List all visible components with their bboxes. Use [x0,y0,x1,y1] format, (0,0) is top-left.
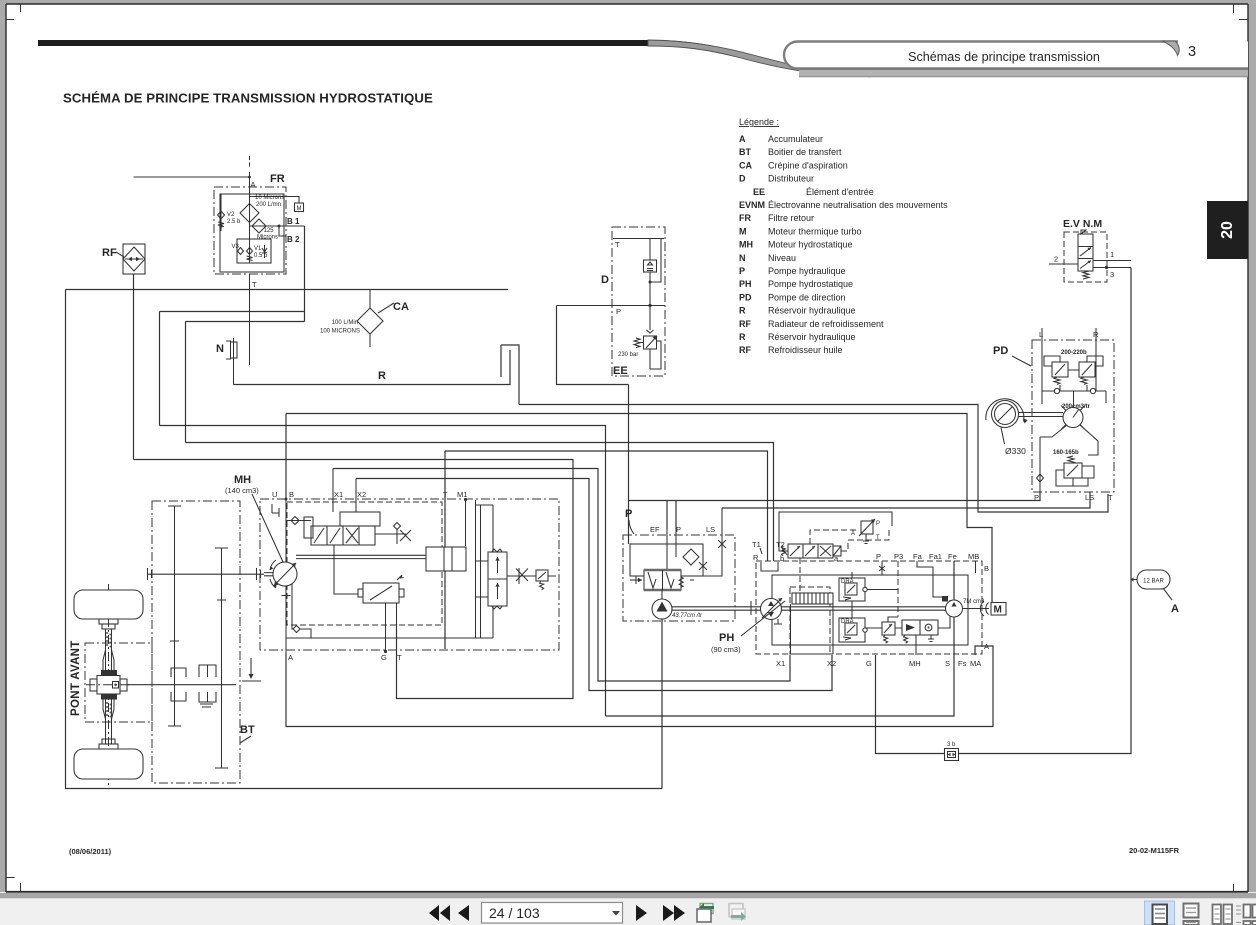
svg-text:20-02-M115FR: 20-02-M115FR [1129,846,1180,855]
svg-text:T: T [397,653,402,662]
svg-text:Filtre retour: Filtre retour [768,213,814,223]
svg-text:Pompe hydraulique: Pompe hydraulique [768,266,846,276]
svg-text:T: T [615,240,620,249]
svg-text:PD: PD [993,345,1008,357]
svg-text:X1: X1 [776,659,785,668]
svg-text:Fs: Fs [958,659,967,668]
svg-text:V1: V1 [254,246,262,252]
svg-text:L: L [1039,330,1043,339]
svg-text:EF: EF [650,525,660,534]
svg-text:Élément d'entrée: Élément d'entrée [806,187,874,197]
svg-text:G: G [866,659,872,668]
svg-text:Légende :: Légende : [739,117,779,127]
svg-text:T1: T1 [752,540,761,549]
svg-text:A: A [851,531,855,537]
svg-text:PONT AVANT: PONT AVANT [70,640,82,716]
svg-text:EE: EE [753,187,765,197]
svg-text:D: D [601,274,609,286]
svg-text:X1: X1 [334,490,343,499]
svg-text:R: R [739,306,746,316]
svg-text:P: P [616,307,621,316]
svg-text:Fa: Fa [913,552,923,561]
svg-text:M1: M1 [457,490,467,499]
svg-text:D: D [739,174,746,184]
svg-text:0.5 b: 0.5 b [254,253,268,259]
svg-text:X2: X2 [827,659,836,668]
svg-text:R: R [1093,330,1099,339]
svg-text:2: 2 [1054,255,1058,264]
svg-text:P: P [876,521,880,527]
svg-text:B: B [984,564,989,573]
svg-text:M: M [739,226,747,236]
svg-text:BT: BT [240,724,255,736]
svg-text:P: P [1034,493,1039,502]
svg-text:MA: MA [970,659,981,668]
svg-text:RF: RF [739,319,751,329]
svg-text:X2: X2 [357,490,366,499]
svg-text:P: P [739,266,745,276]
svg-text:PD: PD [739,292,752,302]
svg-text:FR: FR [739,213,751,223]
svg-text:R: R [753,553,759,562]
svg-text:200-220b: 200-220b [1061,350,1087,356]
svg-text:230 bar: 230 bar [618,352,638,358]
svg-text:Moteur thermique turbo: Moteur thermique turbo [768,226,862,236]
svg-text:DRA: DRA [841,619,854,625]
svg-text:E.V N.M: E.V N.M [1063,218,1102,230]
svg-text:T: T [252,280,257,289]
svg-text:B: B [289,490,294,499]
svg-text:LS: LS [1085,493,1094,502]
svg-text:S: S [945,659,950,668]
svg-text:Distributeur: Distributeur [768,174,814,184]
svg-text:P: P [676,525,681,534]
svg-text:(140 cm3): (140 cm3) [225,486,259,495]
svg-text:Fa1: Fa1 [929,552,942,561]
svg-text:Niveau: Niveau [768,253,796,263]
svg-text:RF: RF [739,345,751,355]
svg-text:P: P [876,552,881,561]
svg-text:43.77cm /tr: 43.77cm /tr [672,613,703,619]
svg-text:U: U [272,490,277,499]
svg-text:2.5 b: 2.5 b [227,219,241,225]
svg-text:SCHÉMA DE PRINCIPE TRANSMISSIO: SCHÉMA DE PRINCIPE TRANSMISSION HYDROSTA… [63,91,433,106]
svg-text:MB: MB [968,552,979,561]
svg-text:20: 20 [1219,221,1236,239]
svg-text:R: R [378,370,386,382]
svg-text:PH: PH [739,279,752,289]
svg-text:Réservoir hydraulique: Réservoir hydraulique [768,306,856,316]
svg-text:CA: CA [393,301,409,313]
svg-text:PH: PH [719,632,734,644]
svg-text:R: R [739,332,746,342]
svg-text:CA: CA [739,160,752,170]
svg-text:200 L/mn: 200 L/mn [256,202,281,208]
svg-text:Fe: Fe [948,552,957,561]
svg-text:A: A [739,134,746,144]
svg-text:125: 125 [264,228,275,234]
svg-text:Radiateur de refroidissement: Radiateur de refroidissement [768,319,884,329]
svg-text:G: G [381,653,387,662]
svg-text:1: 1 [1110,250,1114,259]
svg-text:BT: BT [739,147,751,157]
svg-text:100 L/Min: 100 L/Min [332,320,358,326]
svg-text:Schémas de principe transmissi: Schémas de principe transmission [908,50,1100,64]
svg-text:Refroidisseur huile: Refroidisseur huile [768,345,843,355]
svg-text:Moteur hydrostatique: Moteur hydrostatique [768,240,853,250]
svg-text:P: P [625,508,632,520]
svg-text:M: M [297,206,302,212]
svg-text:3: 3 [1110,270,1114,279]
svg-text:N: N [216,343,224,355]
svg-text:Accumulateur: Accumulateur [768,134,823,144]
svg-text:MH: MH [739,240,753,250]
svg-text:V2: V2 [227,212,235,218]
svg-text:EE: EE [613,365,628,377]
svg-text:A: A [1171,603,1179,615]
svg-text:(08/06/2011): (08/06/2011) [69,847,112,856]
svg-text:Boitier de transfert: Boitier de transfert [768,147,842,157]
svg-text:Ø330: Ø330 [1005,446,1026,456]
svg-text:Réservoir hydraulique: Réservoir hydraulique [768,332,856,342]
svg-text:T2: T2 [776,540,785,549]
svg-text:N: N [739,253,746,263]
svg-text:P3: P3 [894,552,903,561]
svg-text:DRA: DRA [841,579,854,585]
svg-text:Crépine d'aspiration: Crépine d'aspiration [768,160,848,170]
svg-text:12 BAR: 12 BAR [1143,579,1164,585]
svg-text:LS: LS [706,525,715,534]
svg-text:A: A [984,642,989,651]
svg-text:(90 cm3): (90 cm3) [711,645,741,654]
svg-text:Pompe de direction: Pompe de direction [768,292,846,302]
svg-text:3: 3 [1188,44,1196,60]
svg-text:A: A [288,653,293,662]
svg-text:M: M [994,605,1002,616]
svg-text:T: T [1108,493,1113,502]
svg-text:FR: FR [270,173,285,185]
svg-text:MH: MH [909,659,921,668]
svg-text:Microns: Microns [257,235,278,241]
svg-text:MH: MH [234,474,251,486]
svg-text:V3: V3 [232,244,240,250]
svg-text:T: T [443,490,448,499]
svg-text:100 MICRONS: 100 MICRONS [320,329,360,335]
svg-text:RF: RF [102,247,117,259]
svg-text:Pompe hydrostatique: Pompe hydrostatique [768,279,853,289]
svg-text:10 Microns: 10 Microns [255,195,284,201]
svg-text:3 b: 3 b [947,742,956,748]
svg-text:A: A [251,180,256,189]
svg-text:EVNM: EVNM [739,200,765,210]
svg-text:Électrovanne neutralisation de: Électrovanne neutralisation des mouvemen… [768,200,948,210]
svg-text:160-165b: 160-165b [1053,450,1079,456]
svg-text:24 / 103: 24 / 103 [489,905,540,921]
svg-text:B 1: B 1 [287,217,300,226]
svg-text:B 2: B 2 [287,235,300,244]
